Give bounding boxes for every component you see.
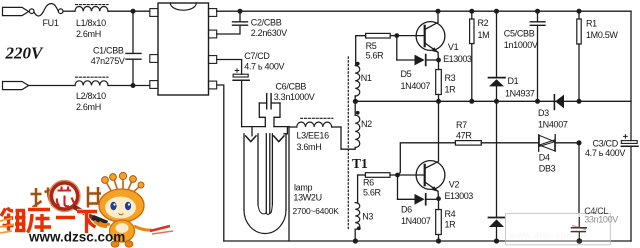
svg-text:L1/8x10: L1/8x10 bbox=[76, 18, 106, 28]
svg-text:V2: V2 bbox=[449, 180, 460, 190]
svg-text:1R: 1R bbox=[445, 220, 457, 230]
svg-text:2700~6400K: 2700~6400K bbox=[293, 206, 340, 216]
svg-text:1N4007: 1N4007 bbox=[401, 216, 431, 226]
resistor R2 bbox=[470, 11, 474, 101]
mascot antennae bbox=[106, 178, 140, 195]
svg-text:1N4937: 1N4937 bbox=[505, 89, 535, 99]
node: V1 base bbox=[394, 33, 399, 38]
node dots on bottom rail bbox=[353, 238, 499, 243]
mascot feet bbox=[111, 241, 133, 247]
svg-text:E13003: E13003 bbox=[445, 191, 474, 201]
svg-text:C5/CBB: C5/CBB bbox=[504, 29, 535, 39]
svg-text:4.7 ь 400V: 4.7 ь 400V bbox=[244, 62, 284, 72]
wire plug P2 to L2 bbox=[29, 85, 75, 87]
svg-text:L3/EE16: L3/EE16 bbox=[297, 130, 330, 140]
mascot character text zhao (find) bbox=[31, 187, 102, 208]
svg-text:R6: R6 bbox=[363, 178, 374, 188]
svg-text:D6: D6 bbox=[401, 204, 412, 214]
node: L2/C1 junction bbox=[131, 83, 136, 88]
lamp filament pin right bbox=[274, 136, 284, 142]
svg-text:1M0.5W: 1M0.5W bbox=[586, 30, 618, 40]
svg-text:3.6mH: 3.6mH bbox=[297, 142, 322, 152]
capacitor C1 bbox=[126, 11, 141, 85]
svg-text:T1: T1 bbox=[352, 156, 368, 171]
svg-text:R3: R3 bbox=[445, 73, 456, 83]
mascot watermark group bbox=[0, 172, 173, 247]
diode D3 bbox=[554, 95, 564, 110]
wire: top DC rail bbox=[217, 10, 631, 12]
node: V1 emitter bbox=[436, 58, 441, 63]
capacitor C5 bbox=[530, 11, 545, 101]
wire: bottom rail bbox=[224, 240, 631, 242]
diode D2 bbox=[489, 101, 506, 241]
svg-text:2.6mH: 2.6mH bbox=[76, 102, 101, 112]
inductor L1 (choke) bbox=[75, 5, 108, 12]
mascot body bbox=[110, 220, 135, 242]
wire fuse to L1 bbox=[63, 10, 75, 12]
wire: mid rail (half-bridge node) bbox=[355, 100, 631, 102]
svg-text:DB3: DB3 bbox=[539, 163, 556, 173]
mascot head bbox=[99, 189, 144, 222]
svg-text:3.3n1000V: 3.3n1000V bbox=[274, 92, 315, 102]
winding N2 bbox=[341, 101, 360, 149]
resistor R7 bbox=[455, 141, 538, 146]
inductor L3 bbox=[289, 118, 341, 127]
mascot magnifier with xin (chip) bbox=[49, 180, 107, 226]
diode D6 bbox=[398, 175, 437, 205]
diode D1 bbox=[489, 11, 506, 101]
svg-text:N3: N3 bbox=[362, 212, 373, 222]
svg-text:D5: D5 bbox=[401, 69, 412, 79]
svg-text:www.dzsc.com: www.dzsc.com bbox=[28, 230, 125, 245]
wire L1 to bridge pin1 bbox=[108, 10, 150, 12]
svg-text:47n275V: 47n275V bbox=[91, 56, 125, 66]
inductor L2 (choke) bbox=[75, 77, 108, 85]
capacitor C3 (electrolytic) bbox=[621, 135, 638, 147]
capacitor C7 (electrolytic) bbox=[217, 60, 250, 127]
wire diac node down to C4 bbox=[578, 143, 580, 228]
svg-text:E13003: E13003 bbox=[443, 54, 472, 64]
transformer T1 core bbox=[347, 57, 349, 229]
svg-text:C1/CBB: C1/CBB bbox=[93, 45, 124, 55]
diode D5 bbox=[397, 36, 437, 66]
node dots on top rail bbox=[238, 9, 582, 14]
wire lamp right side down to bottom rail bbox=[288, 127, 290, 241]
svg-text:D4: D4 bbox=[539, 153, 550, 163]
svg-text:N2: N2 bbox=[361, 119, 372, 129]
node dots on mid rail bbox=[353, 99, 582, 104]
svg-text:D1: D1 bbox=[508, 76, 519, 86]
svg-text:N1: N1 bbox=[361, 73, 372, 83]
plug P1 (line terminal top) bbox=[3, 7, 29, 15]
transistor V2 bbox=[398, 101, 445, 198]
node: V2 base bbox=[395, 173, 400, 178]
wire trigger line to R7 bbox=[398, 143, 456, 175]
capacitor C2 bbox=[217, 11, 248, 34]
capacitor C4 (over watermark box) bbox=[571, 217, 587, 244]
node: L1/C1 junction bbox=[131, 9, 136, 14]
resistor R6 bbox=[358, 173, 398, 178]
lamp filament pin left bbox=[246, 136, 256, 142]
resistor R1 bbox=[577, 11, 581, 101]
svg-text:1n1000V: 1n1000V bbox=[504, 40, 538, 50]
lamp right terminal post bbox=[274, 103, 289, 134]
diac D4 bbox=[539, 135, 579, 152]
resistor R3 bbox=[436, 60, 442, 101]
svg-text:C6/CBB: C6/CBB bbox=[276, 81, 307, 91]
svg-text:4.7 ь 400V: 4.7 ь 400V bbox=[585, 148, 625, 158]
svg-text:C7/CD: C7/CD bbox=[244, 51, 270, 61]
svg-text:33n100V: 33n100V bbox=[584, 214, 618, 224]
wire bottom rail seen through watermark box bbox=[506, 240, 611, 242]
mascot eyes bbox=[110, 202, 131, 215]
wire bridge negative down bbox=[217, 85, 224, 241]
wire plug P1 to fuse bbox=[28, 10, 31, 12]
svg-text:V1: V1 bbox=[448, 42, 459, 52]
wire: right edge bbox=[630, 11, 632, 241]
svg-text:1R: 1R bbox=[445, 84, 457, 94]
mascot character pian (piece) bbox=[88, 187, 101, 208]
winding N3 bbox=[355, 175, 360, 241]
svg-text:R4: R4 bbox=[445, 209, 456, 219]
svg-text:R7: R7 bbox=[456, 120, 467, 130]
lamp U-tube bbox=[244, 134, 286, 234]
transistor V1 bbox=[397, 11, 445, 60]
plug P2 (line terminal bottom) bbox=[3, 82, 29, 90]
svg-text:R2: R2 bbox=[478, 18, 489, 28]
node: diac output bbox=[576, 140, 581, 145]
svg-text:1N4007: 1N4007 bbox=[401, 81, 431, 91]
fuse FU1 bbox=[29, 4, 63, 16]
svg-text:2.2n630V: 2.2n630V bbox=[251, 28, 287, 38]
mascot left arm bbox=[99, 222, 110, 225]
svg-text:13W2U: 13W2U bbox=[293, 193, 321, 203]
node: V2 emitter bbox=[436, 196, 441, 201]
wire L2 to bridge pin3 bbox=[108, 85, 150, 87]
resistor R4 bbox=[436, 199, 442, 241]
winding N1 bbox=[355, 62, 360, 102]
svg-text:www.dzsc.com: www.dzsc.com bbox=[509, 231, 574, 241]
lamp left terminal post bbox=[242, 103, 266, 136]
bridge rectifier U1 (DIP package outline) bbox=[150, 3, 217, 95]
capacitor C6 bbox=[259, 94, 280, 109]
watermark speed lines bbox=[0, 218, 13, 233]
svg-text:R1: R1 bbox=[586, 18, 597, 28]
svg-text:1N4007: 1N4007 bbox=[538, 119, 568, 129]
svg-text:1M: 1M bbox=[478, 30, 490, 40]
svg-text:220V: 220V bbox=[5, 44, 45, 63]
mascot right arm with red marker bbox=[134, 226, 173, 234]
svg-text:5.6R: 5.6R bbox=[363, 187, 382, 197]
svg-text:lamp: lamp bbox=[294, 183, 313, 193]
svg-text:D3: D3 bbox=[538, 108, 549, 118]
svg-text:47R: 47R bbox=[456, 131, 472, 141]
watermark weikuyixia red text bbox=[1, 208, 97, 234]
resistor R5 bbox=[356, 33, 397, 65]
svg-text:C2/CBB: C2/CBB bbox=[251, 18, 282, 28]
svg-text:L2/8x10: L2/8x10 bbox=[76, 91, 106, 101]
svg-text:2.6mH: 2.6mH bbox=[76, 29, 101, 39]
watermark white box bbox=[506, 213, 611, 244]
svg-text:5.6R: 5.6R bbox=[366, 50, 385, 60]
svg-text:FU1: FU1 bbox=[43, 18, 59, 28]
